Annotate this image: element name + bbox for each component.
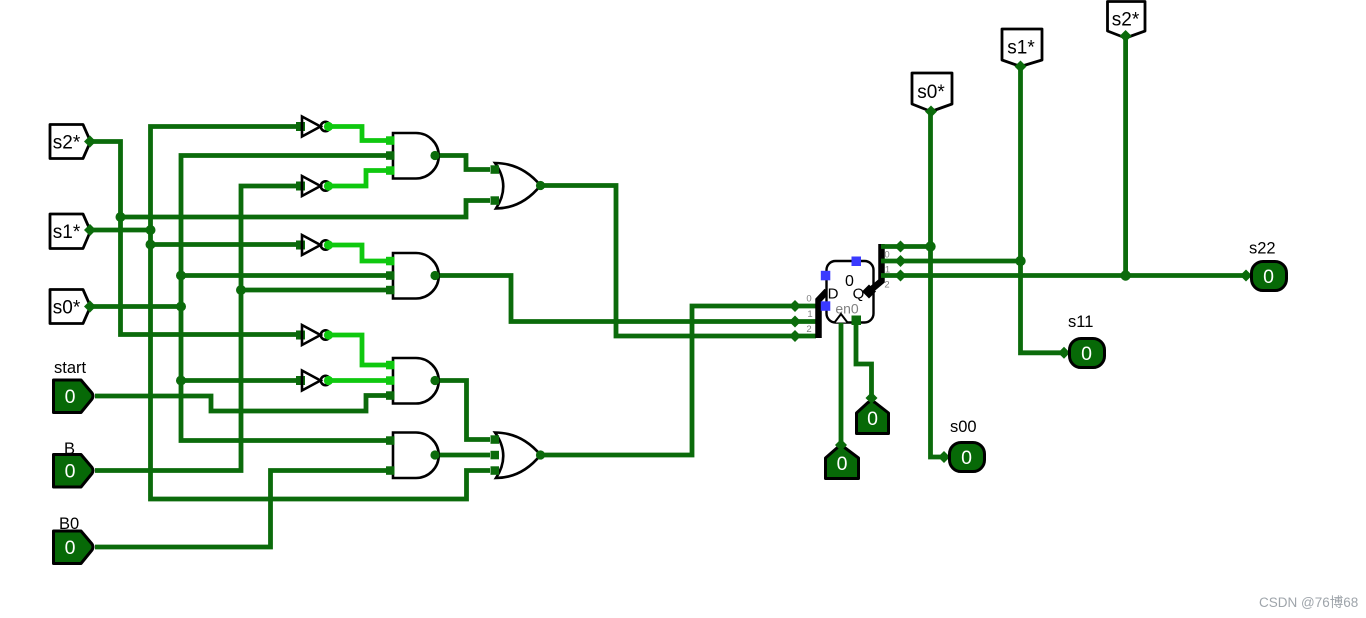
node diamond splitter right leg2 [895,270,907,282]
junction s0*/AND2 [176,271,186,281]
junction s2*/y217 [116,212,126,222]
inverter NOT5 [296,371,333,391]
junction row1/s1* [1015,256,1025,266]
tunnel s0* left [50,290,91,324]
svg-text:start: start [54,359,87,377]
svg-text:s2*: s2* [1112,10,1140,31]
wire s0* tip stub [90,304,181,309]
OR gate O2 [491,433,546,479]
node diamond s2* tunnel tip [84,136,96,148]
svg-text:0: 0 [837,453,848,475]
tunnel s2* left [50,125,91,159]
node diamond splitter right leg1 [895,255,907,267]
AND gate A4 [386,433,440,479]
tunnel s1* top [1002,29,1042,73]
svg-text:0: 0 [65,537,76,559]
node diamond s0* tunnel tip [84,301,96,313]
wire s1* tip stub [90,228,151,233]
enable port square [852,316,862,326]
wire OR1 output to splitter leg 2 [540,186,816,337]
AND gate A1 [386,133,440,179]
wire AND3 output to OR2 top input [435,381,490,440]
wire s1* branch to NOT3 input [151,242,298,247]
wire splitter row2 to output s22 [881,273,1246,278]
svg-text:0: 0 [867,408,878,430]
tunnel s2* top [1108,2,1146,43]
wire register clock from pin [839,323,844,444]
svg-text:1: 1 [807,309,812,320]
splitter SP2 right (fan-out from register Q) [862,244,890,299]
svg-text:s1*: s1* [1007,38,1035,59]
junction s0*/NOT5 [176,376,186,386]
svg-text:s00: s00 [950,418,977,436]
output pin s00 [938,418,985,472]
inverter NOT3 [296,235,333,255]
junction row0/s0* [925,241,935,251]
inverter NOT1 [296,117,333,137]
inverter NOT4 [296,325,333,345]
node diamond splitter right leg0 [895,241,907,253]
input pin B0 [54,515,94,564]
junction row2/s2* [1120,270,1130,280]
wire splitter row1 to s1* vertical [881,259,1021,264]
wire AND4 output to OR2 mid input [435,453,490,458]
wire register enable from pin [856,325,872,397]
AND gate A3 [386,358,440,404]
wire s2* branch: long run y=217 to OR1 lower input [121,201,491,218]
svg-text:2: 2 [806,324,811,335]
inverter NOT2 [296,176,333,196]
wire splitter row0 to s0* vertical [881,244,931,249]
junction B/AND2 [236,285,246,295]
junction s0* tip [176,302,186,312]
svg-text:2: 2 [884,280,889,291]
svg-text:s0*: s0* [917,82,945,103]
wire s1* net: NOT1 feed, vertical VB, bottom run to OR2 lower input [151,127,491,500]
input pin enable 0 (below register) [857,392,889,434]
wire s1* tunnel down to s11 [1021,67,1065,353]
wire B0 net: pin to AND4 bottom input [95,471,390,548]
selection handle top [852,257,862,267]
svg-text:0: 0 [65,461,76,483]
wire NOT4 output (high) to AND3 top input [332,335,389,365]
svg-text:0: 0 [1263,266,1274,288]
wire s0* branch to AND2 mid input [181,273,389,278]
wire start net: pin to AND3 bottom input with jog [95,396,389,412]
input pin B [54,440,94,487]
node diamond splitter left leg2 [789,330,801,342]
input pin clock 0 (below register) [826,439,859,479]
svg-text:CSDN @76博68: CSDN @76博68 [1259,594,1358,610]
tunnel s0* top [912,73,952,118]
output pin s11 [1058,313,1105,368]
node diamond splitter left leg1 [789,316,801,328]
node diamond splitter left leg0 [789,300,801,312]
wire AND2 output to splitter leg 1 [435,276,816,322]
OR gate O1 [491,163,546,209]
svg-text:s1*: s1* [53,222,81,243]
output pin s22 [1240,240,1287,291]
wire B branch to AND2 bottom input [241,288,389,293]
node diamond s1* tunnel tip [84,224,96,236]
svg-text:0: 0 [961,447,972,469]
wire NOT2 output (high) to AND1 bottom input [332,171,389,187]
svg-text:s2*: s2* [53,133,81,154]
svg-text:s11: s11 [1068,313,1093,331]
wire AND1 output to OR1 top input [435,156,490,170]
wire NOT1 output (high) to AND1 top input [332,127,389,141]
splitter SP1 left (fan-in to register D) [806,291,827,338]
wire s0* net: AND1 mid input, vertical V3, AND4 top input [181,156,390,441]
svg-text:en0: en0 [835,301,859,317]
wire OR2 output to splitter leg 0 [540,306,816,455]
junction s1*/NOT3 [146,240,156,250]
wire s2* tunnel down to row2 [1123,36,1128,276]
selection handle left lower [821,301,831,311]
tunnel s1* left [50,214,91,249]
AND gate A2 [386,253,440,299]
selection handle left upper [821,271,831,281]
wire NOT3 output (high) to AND2 top input [332,245,389,261]
wire B net: pin to NOT2 input via V4 [95,186,297,471]
svg-text:0: 0 [65,386,76,408]
svg-text:0: 0 [1081,343,1092,365]
wire NOT5 output (high) to AND3 mid input [332,378,389,383]
input pin start [54,359,94,413]
wire s0* tunnel down to s00 [931,112,945,458]
register U1 (D flip-flop with enable) [821,257,874,326]
clock notch [835,314,848,323]
wire s2* net: tip to V1 down to NOT4 input [90,142,297,335]
svg-text:0: 0 [806,294,811,305]
svg-text:s0*: s0* [53,298,81,319]
svg-text:s22: s22 [1249,240,1276,258]
junction s1* tip [146,225,156,235]
wire s0* branch to NOT5 input [181,378,297,383]
